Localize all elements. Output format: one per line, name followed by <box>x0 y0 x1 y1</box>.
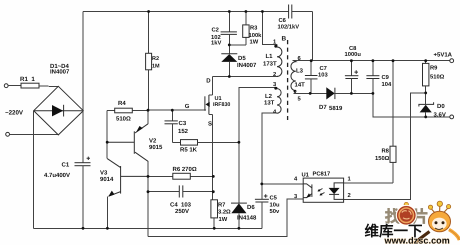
svg-text:D0: D0 <box>437 103 445 110</box>
junction: V2 base / V3 collector node <box>106 141 109 144</box>
svg-text:C4 103: C4 103 <box>170 202 192 209</box>
svg-text:10u: 10u <box>270 202 280 209</box>
svg-text:173T: 173T <box>263 61 277 68</box>
junction: R5 wire on L2 pin3 line <box>238 141 241 144</box>
capacitor C2 102 1kV <box>221 12 237 45</box>
capacitor C1 4.7u/400V <box>75 111 91 229</box>
junction: C8 bottom on 0V node <box>350 92 353 95</box>
resistor R1 <box>21 83 58 88</box>
capacitor C7 103 <box>305 61 318 94</box>
svg-text:13T: 13T <box>264 100 275 107</box>
svg-text:D7: D7 <box>319 104 327 111</box>
junction: R2 top on +DC rail <box>147 10 150 13</box>
capacitor C3 152 <box>165 110 178 142</box>
wire: drain wire to transformer pin 2 <box>213 76 278 78</box>
resistor R2 (startup) <box>146 12 152 111</box>
wire: top rail <box>83 11 289 13</box>
svg-text:R9: R9 <box>430 65 438 72</box>
svg-text:R5 1K: R5 1K <box>180 146 198 153</box>
transistor V2 9015 (PNP) <box>107 110 148 176</box>
bridge rectifier D1-D4 <box>34 86 84 135</box>
wire: L2 pin4 drop to opto pin4 <box>262 113 303 184</box>
junction: C9 bottom on 0V node <box>372 92 375 95</box>
svg-text:L2: L2 <box>265 93 273 100</box>
svg-text:V2: V2 <box>149 137 157 144</box>
capacitor C4 103/250V <box>148 185 213 197</box>
svg-text:9015: 9015 <box>149 144 163 151</box>
wire: L2 pin3 wire <box>239 87 277 142</box>
diode D7 5819 <box>326 87 373 99</box>
junction: C4 left tap <box>147 190 150 193</box>
svg-text:250V: 250V <box>175 208 189 215</box>
svg-text:R7: R7 <box>218 202 225 208</box>
svg-text:U1: U1 <box>302 173 310 179</box>
node: AC input terminal 2 <box>6 132 59 136</box>
wire: 0V drop and bottom output rail <box>373 93 450 117</box>
svg-text:9014: 9014 <box>100 176 114 183</box>
svg-text:B: B <box>282 36 287 43</box>
node: +5V output terminal <box>450 59 454 63</box>
capacitor C6 102/1kV (Y-cap) <box>289 5 313 61</box>
node: AC input terminal 1 <box>4 84 21 88</box>
junction: C4 right on source line <box>212 190 215 193</box>
svg-text:510Ω: 510Ω <box>430 74 445 81</box>
junction: L2 pin4 / C5 / opto pin4 node <box>260 183 263 186</box>
MOSFET U1 IRF830 <box>205 77 213 200</box>
junction: R8 top on +5V rail <box>392 59 395 62</box>
junction: C7 bottom on winding return <box>309 92 312 95</box>
resistor R3 100k 1W <box>229 12 249 45</box>
wire: primary ground rail <box>34 227 262 229</box>
junction: C2/R3/D5 clamp node <box>228 44 231 47</box>
junction: C9 top on +5V rail <box>372 59 375 62</box>
wire: V2 collector node down to bottom feedback wire <box>147 176 149 191</box>
junction: R9/D0/opto LED feedback node <box>424 92 427 95</box>
svg-text:1kV: 1kV <box>211 40 221 47</box>
svg-text:IRF830: IRF830 <box>213 102 230 108</box>
transformer secondary L3 14T <box>291 61 326 94</box>
svg-text:IN4007: IN4007 <box>50 69 70 76</box>
wire: L1 pin1 feed from top rail <box>262 12 277 45</box>
capacitor C5 10u 50V <box>255 184 269 228</box>
junction: V2 collector / V3 base / R6 node <box>147 175 150 178</box>
watermark: dzsc.com logo <box>365 201 460 245</box>
svg-text:U1: U1 <box>215 96 222 102</box>
junction: D6 anode on ground rail <box>238 227 241 230</box>
svg-text:C1: C1 <box>62 162 70 169</box>
svg-text:L3: L3 <box>296 68 304 75</box>
svg-text:100k: 100k <box>249 32 263 39</box>
capacitor C8 1000u <box>345 61 359 94</box>
svg-text:C2: C2 <box>212 27 219 34</box>
transformer feedback winding L2 13T <box>274 87 281 113</box>
svg-text:L1: L1 <box>266 53 274 60</box>
svg-text:R8: R8 <box>382 147 390 154</box>
svg-text:50v: 50v <box>270 208 280 215</box>
svg-text:510Ω: 510Ω <box>116 116 131 123</box>
svg-text:3.2Ω: 3.2Ω <box>218 209 231 216</box>
svg-text:www.dzsc.com: www.dzsc.com <box>384 236 450 245</box>
wire: bridge - output drop <box>33 111 35 229</box>
svg-text:R4: R4 <box>118 100 126 107</box>
resistor R5 1K <box>172 140 239 146</box>
svg-text:D6: D6 <box>247 204 255 211</box>
resistor R4 <box>107 108 148 113</box>
svg-text:PC817: PC817 <box>313 171 331 178</box>
svg-text:S: S <box>208 121 212 128</box>
junction: C6/C7 on +5V rail <box>310 59 313 62</box>
svg-text:2: 2 <box>273 71 276 78</box>
svg-text:2: 2 <box>348 192 351 199</box>
svg-text:C7: C7 <box>320 65 327 72</box>
resistor R9 510ohm <box>423 61 429 93</box>
diode D6 IN4148 <box>231 142 247 228</box>
svg-text:103: 103 <box>318 72 328 79</box>
svg-text:150Ω: 150Ω <box>375 155 390 162</box>
transformer primary L1 173T <box>274 44 282 76</box>
wire: bridge + output riser to top rail <box>82 12 84 111</box>
svg-text:C3: C3 <box>179 120 187 127</box>
wire: feedback bottom wire to opto pin3 <box>148 199 303 237</box>
junction: D5 anode on drain wire <box>228 75 231 78</box>
svg-text:R2: R2 <box>152 56 159 62</box>
junction: R6 right on source line <box>212 175 215 178</box>
svg-text:102/1kV: 102/1kV <box>278 24 300 31</box>
svg-text:5819: 5819 <box>329 105 343 112</box>
capacitor C9 104 <box>366 61 379 94</box>
svg-text:V3: V3 <box>100 169 108 176</box>
zener D0 3.6V <box>419 93 434 117</box>
transformer core (dashed) <box>287 40 289 120</box>
wire: gate wire <box>148 109 206 111</box>
optocoupler U1 PC817 <box>303 178 343 202</box>
svg-text:+5V1A: +5V1A <box>434 52 453 59</box>
junction: C8 top on +5V rail <box>350 59 353 62</box>
junction: R9 top on +5V rail <box>424 59 427 62</box>
svg-text:R3: R3 <box>250 25 258 32</box>
svg-text:G: G <box>185 103 190 110</box>
node: output return terminal <box>450 115 454 119</box>
svg-text:D: D <box>206 78 211 85</box>
junction: R2/R4/V2 emitter/gate node <box>147 109 150 112</box>
svg-text:C5: C5 <box>270 195 278 202</box>
svg-text:C8: C8 <box>349 45 357 52</box>
svg-text:3.6V: 3.6V <box>434 112 446 119</box>
svg-text:1000u: 1000u <box>345 51 362 58</box>
junction: R7 bottom on ground rail <box>213 227 216 230</box>
svg-text:C9: C9 <box>382 74 390 81</box>
svg-text:R1 1: R1 1 <box>20 76 35 83</box>
svg-text:IN4148: IN4148 <box>237 215 257 222</box>
svg-text:~220V: ~220V <box>5 110 24 117</box>
junction: D0 anode on 0V rail <box>424 116 427 119</box>
svg-text:C6: C6 <box>279 17 287 24</box>
diode D5 IN4007 (clamp) <box>221 45 237 77</box>
wire: feedback node to opto pin 2 <box>344 93 426 199</box>
junction: C2 top on +DC rail <box>228 10 231 13</box>
svg-text:14T: 14T <box>295 82 306 89</box>
svg-text:D5: D5 <box>238 55 246 62</box>
junction: C1 bottom on ground rail <box>82 227 85 230</box>
junction: R3 top on +DC rail <box>245 10 248 13</box>
junction: V3 emitter on ground rail <box>106 227 109 230</box>
resistor R7 3.2ohm 1W <box>211 200 218 229</box>
svg-text:104: 104 <box>382 81 392 88</box>
transistor V3 9014 (NPN) <box>107 159 148 229</box>
wire: R4 left drop to V3 collector <box>106 111 108 159</box>
resistor R6 270ohm <box>148 173 213 179</box>
svg-text:1M: 1M <box>152 64 160 70</box>
resistor R8 150ohm <box>344 61 396 183</box>
svg-text:4.7u400V: 4.7u400V <box>44 172 70 179</box>
svg-text:IN4007: IN4007 <box>237 62 257 69</box>
junction: L1 pin1 feed on +DC rail <box>261 10 264 13</box>
svg-text:1W: 1W <box>250 40 259 46</box>
svg-text:152: 152 <box>178 128 189 135</box>
wire: +5V top rail (secondary) <box>292 60 450 62</box>
svg-text:1W: 1W <box>219 217 228 223</box>
junction: C3 tap on gate wire <box>171 109 174 112</box>
svg-text:R6 270Ω: R6 270Ω <box>173 166 197 173</box>
